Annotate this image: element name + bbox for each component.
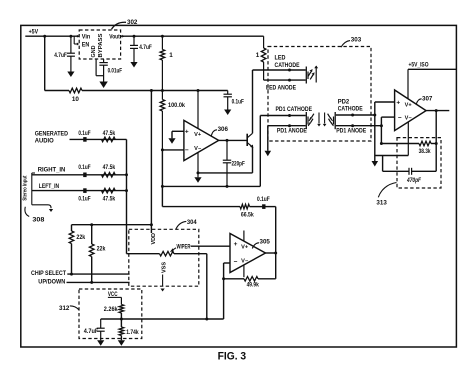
- svg-text:LEFT_IN: LEFT_IN: [39, 183, 60, 190]
- svg-text:VDD: VDD: [151, 233, 157, 245]
- svg-text:RIGHT_IN: RIGHT_IN: [38, 167, 66, 174]
- svg-text:4.7uF: 4.7uF: [139, 44, 152, 51]
- svg-text:GENERATED: GENERATED: [35, 131, 69, 138]
- svg-text:Stereo Input: Stereo Input: [22, 175, 28, 200]
- svg-text:WIPER: WIPER: [177, 243, 191, 250]
- svg-text:1: 1: [256, 52, 260, 59]
- svg-text:313: 313: [376, 200, 387, 207]
- svg-text:0.1uF: 0.1uF: [257, 196, 270, 203]
- svg-text:Vout: Vout: [109, 34, 120, 41]
- svg-text:0.1uF: 0.1uF: [232, 98, 244, 105]
- svg-text:+: +: [396, 99, 400, 106]
- svg-text:0.1uF: 0.1uF: [78, 130, 90, 137]
- svg-text:V+: V+: [241, 244, 248, 250]
- svg-text:LED ANODE: LED ANODE: [266, 84, 296, 91]
- svg-text:−: −: [185, 147, 189, 154]
- svg-text:1: 1: [169, 52, 173, 59]
- svg-text:+5V_ISO: +5V_ISO: [409, 62, 429, 68]
- svg-text:22k: 22k: [76, 234, 85, 241]
- svg-text:UP/DOWN: UP/DOWN: [38, 278, 65, 285]
- svg-text:303: 303: [351, 37, 362, 44]
- svg-text:66.5k: 66.5k: [241, 212, 254, 219]
- svg-text:V−: V−: [241, 258, 248, 264]
- svg-text:38.3k: 38.3k: [419, 148, 431, 155]
- svg-text:308: 308: [32, 217, 44, 224]
- svg-text:304: 304: [187, 219, 197, 226]
- svg-text:AUDIO: AUDIO: [35, 138, 54, 145]
- svg-text:+5V: +5V: [29, 29, 39, 36]
- svg-text:47.5k: 47.5k: [103, 130, 116, 137]
- svg-text:PD1 ANODE: PD1 ANODE: [277, 128, 307, 135]
- svg-text:V−: V−: [405, 116, 412, 122]
- svg-text:GND: GND: [91, 46, 97, 58]
- svg-text:4.7uF: 4.7uF: [54, 52, 67, 59]
- svg-text:305: 305: [260, 238, 271, 245]
- svg-text:Vin: Vin: [82, 34, 91, 41]
- svg-text:4.7uF: 4.7uF: [84, 328, 99, 335]
- svg-text:V+: V+: [194, 132, 201, 138]
- svg-text:BYPASS: BYPASS: [98, 33, 104, 57]
- svg-text:V+: V+: [405, 103, 412, 109]
- svg-text:307: 307: [422, 95, 433, 102]
- svg-text:470pF: 470pF: [406, 177, 421, 184]
- svg-text:22k: 22k: [97, 246, 106, 253]
- svg-text:100.0k: 100.0k: [168, 102, 185, 109]
- svg-text:220pF: 220pF: [232, 161, 245, 168]
- svg-text:302: 302: [127, 19, 138, 26]
- svg-text:306: 306: [218, 126, 229, 133]
- svg-text:CATHODE: CATHODE: [275, 62, 300, 69]
- svg-text:CATHODE: CATHODE: [338, 105, 363, 112]
- svg-text:VSS: VSS: [162, 262, 168, 273]
- svg-text:−: −: [398, 114, 402, 121]
- svg-text:PD1 CATHODE: PD1 CATHODE: [276, 106, 313, 113]
- svg-text:2.26k: 2.26k: [104, 306, 118, 313]
- svg-text:V−: V−: [194, 146, 201, 152]
- svg-text:0.1uF: 0.1uF: [78, 164, 90, 171]
- svg-text:49.9k: 49.9k: [247, 281, 260, 288]
- svg-text:+: +: [185, 129, 189, 136]
- svg-text:0.1uF: 0.1uF: [78, 196, 90, 203]
- svg-text:47.5k: 47.5k: [103, 164, 116, 171]
- svg-text:312: 312: [59, 305, 70, 312]
- svg-text:PD1 ANODE: PD1 ANODE: [336, 128, 366, 135]
- svg-text:10: 10: [72, 96, 79, 103]
- svg-text:−: −: [234, 259, 238, 266]
- svg-text:47.5k: 47.5k: [103, 196, 116, 203]
- svg-text:FIG. 3: FIG. 3: [218, 350, 247, 362]
- svg-text:+: +: [234, 241, 238, 248]
- svg-text:LED: LED: [275, 55, 286, 62]
- svg-text:EN: EN: [82, 41, 90, 48]
- svg-text:CHIP SELECT: CHIP SELECT: [31, 270, 66, 277]
- svg-text:1.74k: 1.74k: [126, 329, 139, 336]
- svg-text:0.01uF: 0.01uF: [108, 67, 123, 74]
